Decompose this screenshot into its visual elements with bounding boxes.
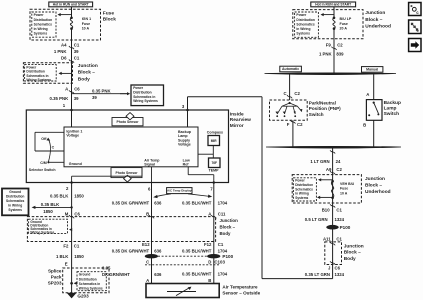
svg-text:C2: C2 bbox=[337, 43, 343, 48]
svg-text:1850: 1850 bbox=[74, 254, 84, 259]
svg-text:1324: 1324 bbox=[335, 272, 345, 277]
svg-text:Fuse: Fuse bbox=[103, 11, 115, 17]
svg-text:A: A bbox=[366, 92, 369, 97]
svg-text:C2: C2 bbox=[297, 122, 303, 127]
svg-text:0.35 PNK: 0.35 PNK bbox=[92, 89, 112, 94]
svg-text:P100: P100 bbox=[340, 225, 351, 230]
svg-text:C6: C6 bbox=[74, 86, 80, 91]
svg-text:Distribution: Distribution bbox=[6, 194, 25, 198]
svg-text:Systems: Systems bbox=[34, 31, 48, 35]
svg-text:VEH B/U: VEH B/U bbox=[340, 182, 355, 186]
svg-text:1 LT GRN: 1 LT GRN bbox=[310, 159, 329, 164]
svg-text:Park/Neutral: Park/Neutral bbox=[309, 101, 336, 106]
svg-text:Manual: Manual bbox=[366, 68, 378, 72]
svg-text:Junction: Junction bbox=[344, 243, 364, 249]
svg-text:B10: B10 bbox=[322, 208, 330, 213]
svg-text:Wiring Systems: Wiring Systems bbox=[26, 78, 51, 82]
svg-text:39: 39 bbox=[74, 49, 79, 54]
svg-text:839: 839 bbox=[336, 51, 344, 56]
svg-text:Block –: Block – bbox=[365, 17, 382, 23]
svg-text:Ground: Ground bbox=[79, 273, 91, 277]
svg-text:Schematics: Schematics bbox=[6, 199, 24, 203]
svg-text:Fuse: Fuse bbox=[340, 22, 348, 26]
svg-text:MIR: MIR bbox=[211, 139, 218, 143]
svg-text:Lamp: Lamp bbox=[384, 106, 397, 112]
svg-text:Body: Body bbox=[78, 76, 90, 82]
svg-text:Voltage: Voltage bbox=[66, 134, 79, 138]
svg-text:10 A: 10 A bbox=[82, 26, 90, 30]
svg-text:in Wiring: in Wiring bbox=[8, 204, 22, 208]
svg-text:c: c bbox=[417, 29, 419, 33]
svg-text:Schematics in: Schematics in bbox=[79, 282, 100, 286]
svg-text:E: E bbox=[65, 261, 68, 266]
svg-text:G203: G203 bbox=[77, 294, 89, 299]
svg-text:F9: F9 bbox=[326, 43, 332, 48]
svg-text:Sensor – Outside: Sensor – Outside bbox=[222, 291, 260, 296]
svg-text:C1: C1 bbox=[336, 208, 342, 213]
svg-text:C1: C1 bbox=[74, 42, 80, 47]
svg-text:F2: F2 bbox=[63, 244, 69, 249]
svg-text:F12: F12 bbox=[204, 242, 212, 247]
svg-text:Distribution: Distribution bbox=[296, 18, 315, 22]
svg-text:1 PNK: 1 PNK bbox=[319, 51, 333, 56]
svg-text:Fuse: Fuse bbox=[82, 22, 90, 26]
svg-text:F: F bbox=[287, 122, 290, 127]
svg-text:Schematics: Schematics bbox=[296, 22, 314, 26]
svg-text:0.5 LT GRN: 0.5 LT GRN bbox=[305, 217, 328, 222]
svg-text:A: A bbox=[208, 211, 211, 216]
svg-text:Backup: Backup bbox=[384, 100, 401, 106]
svg-text:M: M bbox=[65, 211, 69, 216]
svg-text:A/C Temp Display: A/C Temp Display bbox=[167, 189, 192, 193]
svg-text:0.35 BLK/WHT: 0.35 BLK/WHT bbox=[182, 249, 212, 254]
svg-text:C1: C1 bbox=[336, 237, 342, 242]
svg-text:C6: C6 bbox=[74, 211, 80, 216]
svg-text:Pack: Pack bbox=[51, 275, 62, 280]
svg-text:D6: D6 bbox=[61, 55, 67, 60]
svg-text:0.35 LT GRN: 0.35 LT GRN bbox=[305, 272, 330, 277]
svg-text:B: B bbox=[363, 122, 366, 127]
svg-text:C2: C2 bbox=[336, 167, 342, 172]
svg-text:Mirror: Mirror bbox=[230, 123, 244, 129]
svg-text:Systems: Systems bbox=[8, 208, 22, 212]
svg-text:1 PNK: 1 PNK bbox=[54, 49, 68, 54]
svg-text:D: D bbox=[208, 259, 211, 264]
svg-text:Inside: Inside bbox=[230, 111, 244, 117]
svg-text:Systems: Systems bbox=[296, 31, 310, 35]
svg-text:Signal: Signal bbox=[144, 162, 155, 166]
svg-text:B: B bbox=[146, 211, 149, 216]
svg-text:24: 24 bbox=[336, 159, 341, 164]
svg-text:Junction: Junction bbox=[220, 218, 239, 223]
svg-text:0.35 BLK/WHT: 0.35 BLK/WHT bbox=[182, 271, 212, 276]
svg-text:Photo Sensor: Photo Sensor bbox=[115, 171, 138, 175]
svg-text:Junction: Junction bbox=[365, 176, 385, 182]
svg-text:Automatic: Automatic bbox=[282, 67, 299, 71]
svg-text:C2: C2 bbox=[294, 91, 300, 96]
svg-text:C11: C11 bbox=[218, 211, 226, 216]
svg-text:Hot in RUN and START: Hot in RUN and START bbox=[53, 3, 89, 7]
svg-text:Ground: Ground bbox=[69, 162, 82, 166]
svg-text:Block: Block bbox=[103, 17, 116, 23]
svg-text:1 BLK: 1 BLK bbox=[56, 254, 69, 259]
svg-text:Wiring Systems: Wiring Systems bbox=[79, 287, 103, 291]
svg-text:1850: 1850 bbox=[74, 193, 84, 198]
svg-text:SP203: SP203 bbox=[48, 280, 62, 285]
svg-text:A: A bbox=[146, 278, 149, 283]
svg-text:Switch: Switch bbox=[384, 111, 400, 117]
svg-text:636: 636 bbox=[154, 201, 162, 206]
svg-text:Ref: Ref bbox=[183, 162, 190, 166]
svg-text:1324: 1324 bbox=[335, 217, 345, 222]
svg-text:B: B bbox=[208, 278, 211, 283]
svg-text:1704: 1704 bbox=[218, 201, 228, 206]
svg-text:C1: C1 bbox=[74, 244, 80, 249]
svg-text:Body: Body bbox=[220, 231, 232, 236]
svg-text:C1: C1 bbox=[218, 242, 224, 247]
svg-text:Distribution: Distribution bbox=[34, 18, 53, 22]
svg-text:0.35 BLK: 0.35 BLK bbox=[50, 193, 69, 198]
svg-text:Block –: Block – bbox=[220, 225, 236, 230]
svg-text:Selector Switch: Selector Switch bbox=[29, 168, 56, 172]
svg-text:Photo Sensor: Photo Sensor bbox=[116, 120, 139, 124]
svg-text:in Wiring: in Wiring bbox=[296, 27, 310, 31]
svg-text:Off: Off bbox=[41, 137, 47, 141]
svg-text:Rearview: Rearview bbox=[230, 117, 251, 123]
svg-text:C: C bbox=[146, 259, 149, 264]
svg-text:0.35 DK GRN/WHT: 0.35 DK GRN/WHT bbox=[112, 249, 150, 254]
svg-text:Systems: Systems bbox=[295, 196, 308, 200]
svg-text:C: C bbox=[52, 146, 55, 150]
svg-text:1850: 1850 bbox=[43, 209, 53, 214]
svg-text:Underhood: Underhood bbox=[365, 189, 391, 195]
svg-text:Air Temperature: Air Temperature bbox=[222, 285, 258, 290]
svg-text:A9: A9 bbox=[326, 167, 332, 172]
svg-text:Junction: Junction bbox=[365, 10, 385, 16]
svg-text:Wiring Systems: Wiring Systems bbox=[133, 99, 158, 103]
svg-text:Junction: Junction bbox=[78, 63, 98, 69]
svg-text:A4: A4 bbox=[61, 42, 67, 47]
svg-text:in Wiring: in Wiring bbox=[34, 27, 48, 31]
svg-text:636: 636 bbox=[154, 272, 162, 277]
svg-text:Power: Power bbox=[34, 13, 45, 17]
svg-text:Wiring Systems: Wiring Systems bbox=[30, 231, 54, 235]
svg-text:Ground: Ground bbox=[9, 190, 21, 194]
svg-text:Block –: Block – bbox=[365, 183, 382, 189]
svg-text:A: A bbox=[65, 86, 68, 91]
svg-text:Compass: Compass bbox=[207, 131, 223, 135]
svg-text:IGN 1: IGN 1 bbox=[82, 17, 91, 21]
svg-text:Fuse: Fuse bbox=[340, 187, 348, 191]
svg-text:Voltage: Voltage bbox=[178, 143, 191, 147]
svg-text:Schematics: Schematics bbox=[34, 22, 52, 26]
svg-text:C: C bbox=[283, 91, 286, 96]
svg-text:C6: C6 bbox=[335, 266, 341, 271]
svg-text:20 A: 20 A bbox=[340, 26, 348, 30]
svg-text:Block –: Block – bbox=[344, 250, 361, 256]
svg-text:C103: C103 bbox=[214, 259, 225, 264]
svg-text:Splice: Splice bbox=[48, 269, 62, 274]
svg-text:Distribution: Distribution bbox=[79, 277, 97, 281]
svg-text:10 A: 10 A bbox=[340, 191, 348, 195]
svg-text:Body: Body bbox=[344, 256, 356, 262]
svg-text:B/U LP: B/U LP bbox=[340, 17, 352, 21]
svg-text:Hot in RUN and START: Hot in RUN and START bbox=[315, 3, 351, 7]
svg-text:Underhood: Underhood bbox=[365, 23, 391, 29]
svg-text:Power: Power bbox=[296, 13, 307, 17]
svg-text:Position (PNP): Position (PNP) bbox=[309, 106, 341, 111]
svg-text:E12: E12 bbox=[142, 242, 150, 247]
svg-text:0.35 PNK: 0.35 PNK bbox=[50, 96, 70, 101]
svg-text:1704: 1704 bbox=[218, 271, 228, 276]
svg-text:Switch: Switch bbox=[309, 112, 324, 117]
svg-text:76F: 76F bbox=[211, 161, 217, 165]
svg-text:C1: C1 bbox=[74, 55, 80, 60]
svg-text:39: 39 bbox=[74, 96, 79, 101]
svg-text:1704: 1704 bbox=[218, 249, 228, 254]
svg-text:636: 636 bbox=[154, 249, 162, 254]
svg-text:TEMP: TEMP bbox=[209, 168, 220, 172]
svg-text:0.35 DK GRN/WHT: 0.35 DK GRN/WHT bbox=[112, 201, 150, 206]
svg-text:A11: A11 bbox=[323, 237, 331, 242]
svg-text:0.35 BLK: 0.35 BLK bbox=[41, 202, 60, 207]
svg-text:0.35 BLK/WHT: 0.35 BLK/WHT bbox=[182, 201, 212, 206]
svg-text:39: 39 bbox=[92, 95, 97, 100]
svg-text:C/M: C/M bbox=[40, 161, 47, 165]
svg-text:Block –: Block – bbox=[78, 70, 95, 76]
